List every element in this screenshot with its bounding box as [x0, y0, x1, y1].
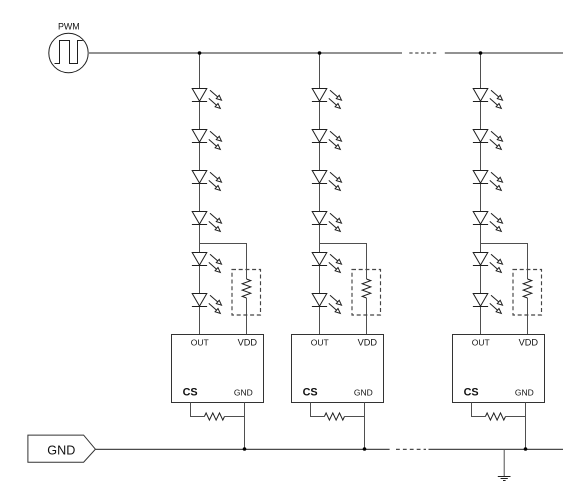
LED D36 — [473, 294, 503, 314]
svg-text:CS: CS — [464, 387, 479, 399]
dashed box: string 3 optional-component outline — [513, 270, 542, 316]
svg-text:VDD: VDD — [238, 337, 258, 347]
wire: string 1 branch from LED chain to VDD pin — [200, 244, 247, 280]
wire: string 2 branch from LED chain to VDD pin — [320, 244, 367, 280]
svg-text:VDD: VDD — [519, 337, 539, 347]
wire: string 3 bypass resistor to VDD pin — [527, 298, 529, 334]
resistor: string 2 current-sense resistor — [324, 413, 344, 420]
wire: GND bottom rail, dashed continuation — [396, 448, 426, 450]
wire: GND bottom rail, right solid segment — [429, 448, 564, 450]
LED D33 — [473, 171, 503, 191]
wire: string 2 LED chain vertical (top rail to OUT pin) — [319, 53, 321, 334]
wire: U1 GND pin down to GND rail — [244, 403, 246, 450]
svg-text:GND: GND — [354, 387, 373, 397]
svg-text:PWM: PWM — [58, 21, 80, 31]
junction: string 2 bottom node on GND rail — [363, 447, 367, 451]
junction: string 3 bottom node on GND rail — [524, 447, 528, 451]
svg-text:OUT: OUT — [472, 337, 490, 347]
junction: string 1 bottom node on GND rail — [243, 447, 247, 451]
svg-text:CS: CS — [303, 387, 318, 399]
wire: U1 CS pin to sense resistor — [191, 403, 205, 417]
LED D13 — [192, 171, 222, 191]
LED D26 — [312, 294, 342, 314]
PWM pulse source V1 — [49, 33, 88, 72]
dashed box: string 2 optional-component outline — [352, 270, 381, 316]
wire: sense resistor to GND pin net, string 3 — [506, 416, 526, 418]
LED D11 — [192, 89, 222, 109]
svg-text:VDD: VDD — [358, 337, 378, 347]
svg-text:OUT: OUT — [191, 337, 209, 347]
IC U2 LED driver box — [292, 335, 384, 403]
LED D22 — [312, 130, 342, 150]
wire: sense resistor to GND pin net, string 1 — [225, 416, 245, 418]
dashed box: string 1 optional-component outline — [232, 270, 261, 316]
wire: GND bottom rail, left solid segment — [95, 448, 389, 450]
ground: earth symbol on GND rail — [498, 449, 511, 481]
junction: string 1 top node on PWM rail — [198, 51, 202, 55]
wire: U2 GND pin down to GND rail — [364, 403, 366, 450]
LED D12 — [192, 130, 222, 150]
wire: PWM top rail, right solid segment — [445, 52, 563, 54]
svg-text:GND: GND — [234, 387, 253, 397]
wire: U3 CS pin to sense resistor — [472, 403, 486, 417]
junction: string 2 top node on PWM rail — [318, 51, 322, 55]
LED D16 — [192, 294, 222, 314]
LED D21 — [312, 89, 342, 109]
LED D15 — [192, 253, 222, 273]
resistor: string 2 bypass resistor (dashed optional) — [362, 279, 371, 298]
LED D23 — [312, 171, 342, 191]
resistor: string 1 bypass resistor (dashed optional) — [242, 279, 251, 298]
resistor: string 3 current-sense resistor — [485, 413, 505, 420]
wire: string 1 LED chain vertical (top rail to OUT pin) — [199, 53, 201, 334]
wire: string 2 bypass resistor to VDD pin — [366, 298, 368, 334]
LED D31 — [473, 89, 503, 109]
wire: sense resistor to GND pin net, string 2 — [345, 416, 365, 418]
wire: U2 CS pin to sense resistor — [311, 403, 325, 417]
LED D35 — [473, 253, 503, 273]
LED D14 — [192, 212, 222, 232]
LED D32 — [473, 130, 503, 150]
LED D25 — [312, 253, 342, 273]
svg-text:GND: GND — [515, 387, 534, 397]
resistor: string 3 bypass resistor (dashed optional) — [523, 279, 532, 298]
wire: PWM top rail, left solid segment — [88, 52, 402, 54]
svg-text:OUT: OUT — [311, 337, 329, 347]
junction: string 3 top node on PWM rail — [479, 51, 483, 55]
resistor: string 1 current-sense resistor — [204, 413, 224, 420]
wire: U3 GND pin down to GND rail — [525, 403, 527, 450]
LED D34 — [473, 212, 503, 232]
svg-text:GND: GND — [47, 444, 75, 458]
IC U3 LED driver box — [453, 335, 545, 403]
GND net flag — [28, 435, 96, 462]
IC U1 LED driver box — [172, 335, 264, 403]
wire: string 3 LED chain vertical (top rail to OUT pin) — [480, 53, 482, 334]
wire: string 3 branch from LED chain to VDD pin — [481, 244, 528, 280]
LED D24 — [312, 212, 342, 232]
wire: PWM top rail, dashed continuation — [409, 52, 436, 54]
wire: string 1 bypass resistor to VDD pin — [246, 298, 248, 334]
svg-text:CS: CS — [183, 387, 198, 399]
